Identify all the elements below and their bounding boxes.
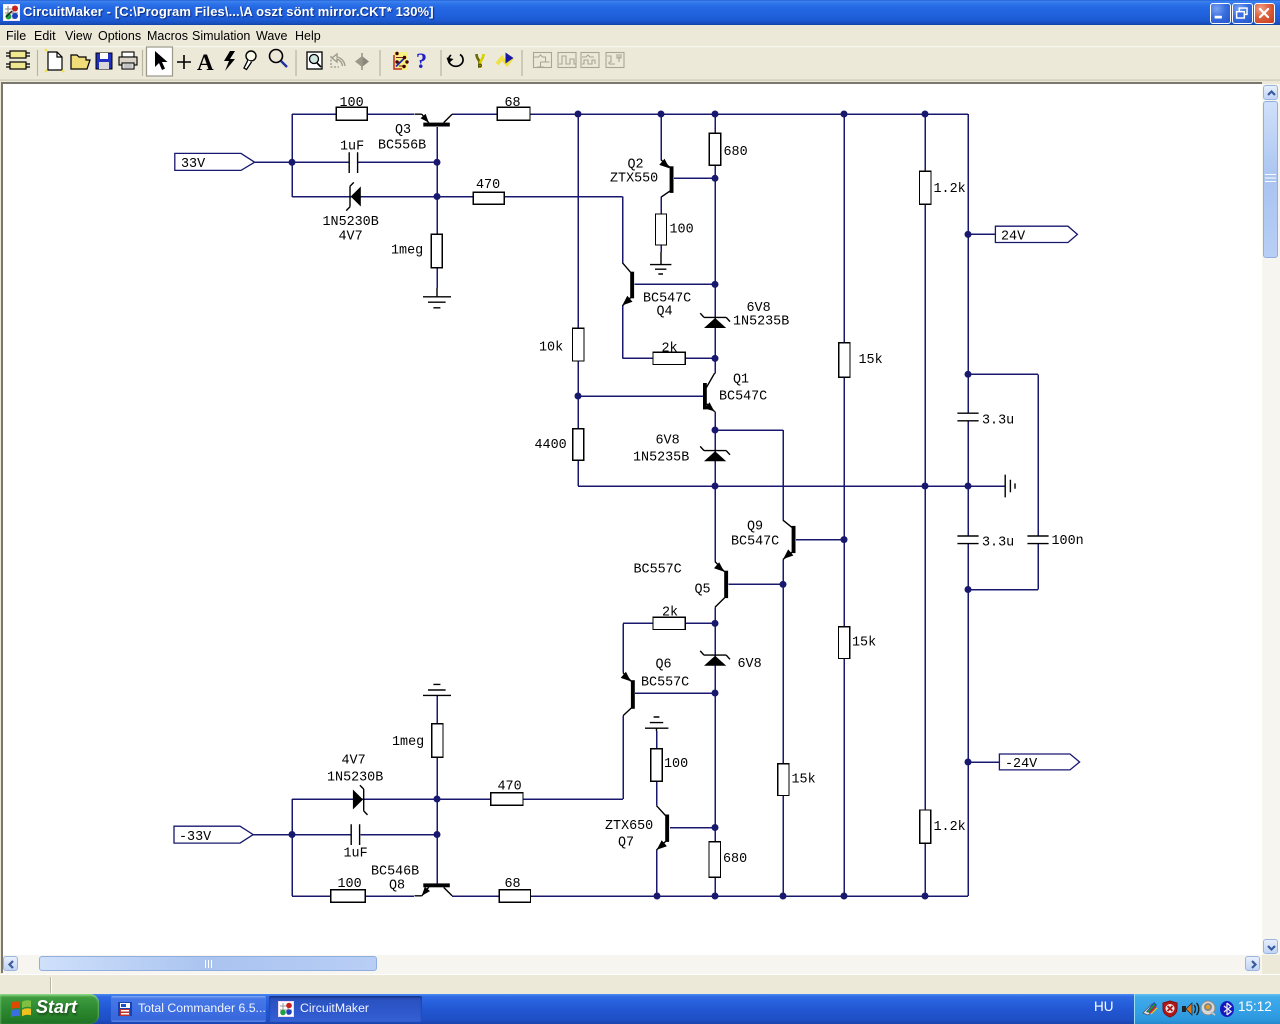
node junction 844,896 (841, 893, 848, 900)
svg-text:-24V: -24V (1005, 757, 1037, 772)
wire Q6 emitter leg x=623 (622, 623, 624, 672)
svg-text:100n: 100n (1052, 534, 1084, 549)
node junction 292,162 (289, 159, 296, 166)
node -24V output connector (999, 754, 1079, 772)
capacitor 1uF top (349, 152, 357, 173)
svg-text:680: 680 (723, 852, 747, 867)
svg-text:4V7: 4V7 (342, 754, 366, 769)
wire Q5 base lead y=584.4 (729, 583, 784, 585)
wire -24V tap y=762 (968, 761, 999, 763)
node junction 783,584 Q5 base (780, 581, 787, 588)
svg-text:3.3u: 3.3u (982, 413, 1014, 428)
zener diode 1N5235B 6V8 middle (700, 446, 730, 461)
wire Q6 base lead y=693 (635, 692, 715, 694)
svg-text:680: 680 (724, 145, 748, 160)
wire ground to 100 R16 x=656.5 (656, 731, 658, 749)
wire Q4 base lead y=284.4 (635, 283, 716, 285)
svg-text:68: 68 (505, 96, 521, 111)
wire 24V tap y=234.4 (968, 233, 995, 235)
resistor R 470 top (473, 192, 504, 204)
resistor R 680 bottom (709, 842, 721, 878)
node junction 715,693 Q6 base (712, 690, 719, 697)
svg-text:100: 100 (664, 757, 688, 772)
resistor R 15k lower x=844 (839, 627, 850, 659)
node junction 968,486 (965, 483, 972, 490)
svg-text:15k: 15k (859, 353, 883, 368)
resistor R 68 top (497, 107, 530, 120)
svg-text:1uF: 1uF (340, 140, 364, 155)
node junction 968,762 -24V tap (965, 759, 972, 766)
node junction 715,358 (712, 355, 719, 362)
capacitor 3.3u upper (957, 413, 978, 421)
wire Q9 base lead y=539.6 (796, 539, 844, 541)
svg-text:470: 470 (498, 779, 522, 794)
transistor Q1 BC547C (703, 373, 715, 411)
svg-text:BC547C: BC547C (719, 390, 767, 405)
node junction 437,799 (434, 796, 441, 803)
svg-text:4V7: 4V7 (339, 230, 363, 245)
svg-text:2k: 2k (662, 605, 678, 620)
svg-text:6V8: 6V8 (656, 434, 680, 449)
transistor Q2 ZTX550 (659, 159, 673, 198)
wire cap branch bottom y=589.5 (968, 589, 1038, 591)
svg-text:BC557C: BC557C (634, 563, 682, 578)
wire ground to 1meg R17 x=437 (436, 696, 438, 724)
svg-text:Q1: Q1 (733, 372, 749, 387)
svg-text:6V8: 6V8 (747, 301, 771, 316)
wire ground row y=486 (578, 485, 1005, 487)
wire 1.2k rail x=925 (924, 114, 926, 896)
wire output rail x=968 (967, 114, 969, 896)
node -33V input connector (174, 826, 253, 845)
resistor R 2k bottom (653, 617, 685, 629)
svg-text:Q5: Q5 (695, 583, 711, 598)
ground above Q7 100 (645, 717, 668, 731)
node junction 715,623 (712, 620, 719, 627)
svg-text:100: 100 (340, 96, 364, 111)
node junction 715,178 Q2 base (712, 175, 719, 182)
node junction 968,374 (965, 371, 972, 378)
resistor R 2k top (653, 352, 685, 364)
svg-text:Q4: Q4 (657, 305, 673, 320)
transistor Q6 BC557C (621, 672, 635, 716)
svg-text:Q8: Q8 (389, 879, 405, 894)
node junction 437,834.5 (434, 831, 441, 838)
svg-text:1N5235B: 1N5235B (633, 451, 689, 466)
wire Q7 emitter leg x=656.5 (656, 850, 658, 896)
resistor R 10k (573, 328, 584, 361)
node junction 715,430 (712, 427, 719, 434)
node junction 925,896 (922, 893, 929, 900)
ground under Q2 100 (650, 252, 671, 274)
wire Q7 base lead y=827.5 (670, 827, 715, 829)
capacitor 100n (1027, 536, 1048, 544)
resistor R 15k upper x=844 (839, 343, 850, 377)
svg-text:BC556B: BC556B (378, 139, 426, 154)
wire Q2 collector to 100/ground x=661 (660, 197, 662, 252)
capacitor 3.3u lower (957, 536, 978, 544)
resistor R 15k x=783 (778, 764, 789, 796)
svg-text:1N5235B: 1N5235B (733, 315, 789, 330)
wire 2k row one y=358.4 (623, 357, 716, 359)
svg-text:1meg: 1meg (392, 735, 424, 750)
svg-text:1uF: 1uF (344, 847, 368, 862)
wire Q6 collector leg x=623 (622, 716, 624, 799)
wire left riser x=292 (33V block) (291, 114, 293, 197)
node 24V output connector (995, 226, 1077, 244)
wire -33V feed row y=834.5 (253, 834, 438, 836)
svg-text:4400: 4400 (535, 438, 567, 453)
ground above 1meg bottom (423, 684, 451, 695)
svg-text:100: 100 (338, 877, 362, 892)
node junction 715,896 (712, 893, 719, 900)
transistor Q3 BC556B (415, 114, 453, 127)
svg-text:ZTX650: ZTX650 (605, 819, 653, 834)
wire main rail x=715 upper (714, 114, 716, 373)
node junction 292,834.5 (289, 831, 296, 838)
resistor R 1meg bottom (432, 724, 443, 758)
wire 15k rail x=844 (843, 114, 845, 896)
wire Q4 emitter leg x=622.5 (622, 306, 624, 359)
zener diode 1N5230B 4V7 bottom-left (353, 785, 368, 815)
wire left riser x=292 (-33V block) (291, 799, 293, 896)
svg-text:10k: 10k (539, 341, 563, 356)
node junction 437,196.5 (434, 193, 441, 200)
wire main rail x=715 middle (714, 412, 716, 562)
svg-text:?: ? (416, 48, 427, 73)
svg-text:ZTX550: ZTX550 (610, 172, 658, 187)
node junction 715,284 Q4 base (712, 281, 719, 288)
svg-text:A: A (197, 50, 214, 75)
resistor R 100 top-left (336, 107, 367, 120)
wire link Q1 emitter to x=783 y=430 (715, 429, 783, 431)
wire Q7 collector leg x=656.5 (656, 781, 658, 806)
wire 100n branch x=1038 (1037, 374, 1039, 589)
transistor Q7 ZTX650 (657, 806, 670, 850)
svg-text:Q6: Q6 (656, 657, 672, 672)
svg-text:470: 470 (476, 178, 500, 193)
wire Q4 collector leg x=622.5 (622, 197, 624, 263)
resistor R 1.2k top (920, 171, 932, 204)
zener diode 1N5230B 4V7 top-left (346, 182, 361, 210)
node junction 661,114 (658, 111, 665, 118)
svg-text:15k: 15k (852, 636, 876, 651)
wire 1meg R17 to Q8 stem x=437 (436, 757, 438, 883)
node junction 578,114 (575, 111, 582, 118)
svg-text:24V: 24V (1001, 230, 1025, 245)
wire 470 row two y=799 (292, 798, 623, 800)
node junction 783,896 (780, 893, 787, 900)
resistor R 4400 (573, 429, 584, 461)
wire bottom rail y=896 (292, 895, 968, 897)
svg-text:BC546B: BC546B (371, 865, 419, 880)
node junction 925,114 (922, 111, 929, 118)
svg-text:1meg: 1meg (391, 244, 423, 259)
zener diode 1N5235B 6V8 upper (700, 313, 730, 328)
capacitor 1uF bottom (351, 824, 359, 845)
node junction 968,589 (965, 586, 972, 593)
transistor Q8 BC546B (415, 883, 453, 895)
wire 2k row two y=623.4 (623, 622, 715, 624)
svg-text:68: 68 (505, 877, 521, 892)
svg-text:6V8: 6V8 (738, 657, 762, 672)
resistor R 100 bottom-left (331, 890, 365, 903)
transistor Q5 BC557C (714, 562, 728, 608)
zener diode 6V8 lower (700, 651, 730, 666)
resistor R 100 Q2 collector (655, 214, 666, 245)
wire Q2 emitter drop x=661 (660, 114, 662, 160)
svg-text:3.3u: 3.3u (982, 536, 1014, 551)
wire +33V top rail y=114 (292, 113, 968, 115)
wire zener/470 row y=196.5 (292, 196, 623, 198)
svg-text:1.2k: 1.2k (934, 820, 966, 835)
wire cap branch top y=374.3 (968, 373, 1038, 375)
resistor R 68 bottom (499, 890, 530, 903)
ground under 1meg top (423, 288, 451, 308)
svg-text:100: 100 (670, 223, 694, 238)
wire x=783 riser lower (782, 559, 784, 896)
svg-text:Q2: Q2 (628, 157, 644, 172)
node 33V input connector (175, 153, 255, 172)
wire 33V feed row y=162.3 (255, 161, 437, 163)
svg-text:Q3: Q3 (395, 123, 411, 138)
svg-text:BC547C: BC547C (731, 535, 779, 550)
wire Q1 base lead y=396 (578, 395, 703, 397)
resistor R 1meg top (431, 234, 442, 267)
svg-text:1N5230B: 1N5230B (323, 215, 379, 230)
node junction 437,162 (434, 159, 441, 166)
resistor R 470 bottom (491, 793, 523, 806)
svg-text:Q9: Q9 (747, 520, 763, 535)
svg-text:33V: 33V (181, 157, 205, 172)
svg-text:15k: 15k (792, 773, 816, 788)
wire 1meg R4 leads x=437 (436, 197, 438, 289)
transistor Q4 BC547C (622, 263, 634, 306)
wire Q3 base stem x=437 (436, 127, 438, 197)
transistor Q9 BC547C (783, 520, 796, 559)
wire x=783 riser upper (782, 430, 784, 520)
wire 10k/4400 rail x=578 (577, 114, 579, 486)
svg-text:Q7: Q7 (618, 836, 634, 851)
node junction 715,114 (712, 111, 719, 118)
wire main rail x=715 lower (714, 607, 716, 896)
node junction 844,114 (841, 111, 848, 118)
resistor R 100 Q7 collector (651, 749, 662, 781)
svg-text:2k: 2k (662, 341, 678, 356)
wire Q2 base lead y=178.3 (674, 177, 715, 179)
resistor R 1.2k bottom (920, 810, 931, 843)
ground right side rotated (1005, 475, 1015, 498)
svg-text:1.2k: 1.2k (934, 182, 966, 197)
node junction 925,486 (922, 483, 929, 490)
node junction 844,539 Q9 base (841, 536, 848, 543)
svg-text:1N5230B: 1N5230B (327, 771, 383, 786)
node junction 715,486 (712, 483, 719, 490)
svg-text:BC557C: BC557C (641, 676, 689, 691)
resistor R 680 top (709, 133, 721, 165)
node junction 715,827 Q7 base (712, 824, 719, 831)
node junction 578,396 Q1 base (575, 393, 582, 400)
node junction 968,234 24V tap (965, 231, 972, 238)
node junction 657,896 (654, 893, 661, 900)
svg-text:-33V: -33V (179, 830, 211, 845)
